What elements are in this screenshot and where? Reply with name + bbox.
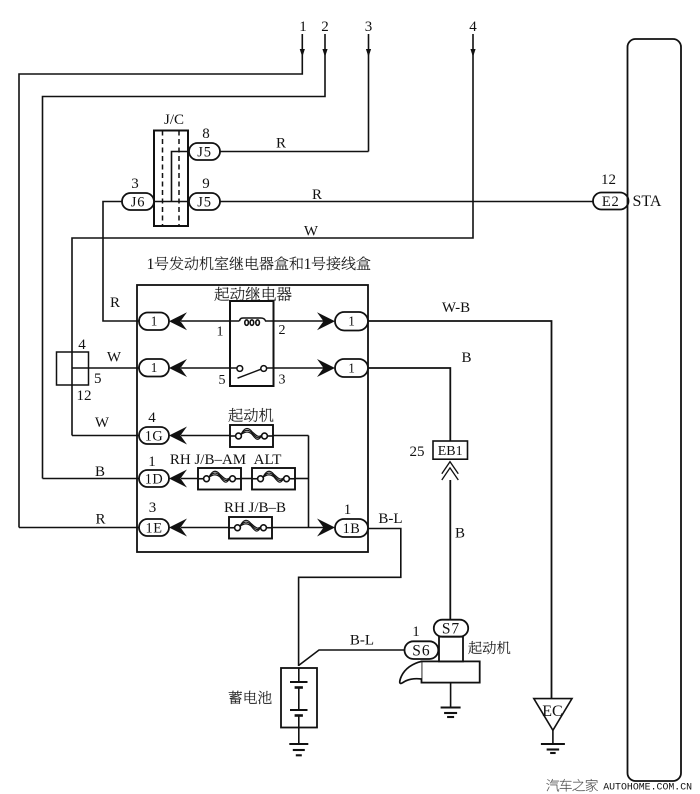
connector S7 (434, 620, 468, 638)
EC ground lead (552, 730, 554, 743)
pin 8 label (202, 126, 210, 142)
svg-text:J/C: J/C (164, 112, 184, 128)
relay pin 1 label (217, 325, 224, 340)
svg-text:R: R (95, 512, 105, 528)
wire 1 with down arrow (19, 34, 305, 528)
connector 1B (335, 519, 368, 537)
wire 3 with down arrow (366, 34, 371, 152)
wire W-B to EC (368, 321, 552, 699)
svg-text:B-L: B-L (350, 633, 374, 649)
svg-text:3: 3 (149, 500, 157, 516)
wire J6 left lead (103, 202, 139, 322)
trunk wire right of breakers (308, 436, 310, 528)
arrow into row2 left (169, 359, 187, 377)
pin 9 label (202, 176, 210, 192)
svg-text:2: 2 (321, 19, 329, 35)
svg-text:AUTOHOME.COM.CN: AUTOHOME.COM.CN (603, 782, 692, 793)
svg-text:12: 12 (601, 172, 616, 188)
starter solenoid (439, 637, 463, 662)
svg-text:3: 3 (365, 19, 373, 35)
arrow into row1 left (169, 312, 187, 330)
junction connector J/C box (154, 131, 188, 227)
wire 2 with down arrow (43, 34, 328, 479)
ground point EC triangle (534, 699, 572, 731)
wire B EB1 to starter (449, 480, 451, 620)
svg-text:1: 1 (412, 624, 420, 640)
svg-text:EC: EC (542, 703, 562, 720)
svg-text:1E: 1E (146, 520, 163, 536)
svg-text:RH J/B–AM: RH J/B–AM (170, 452, 246, 468)
svg-text:3: 3 (131, 176, 139, 192)
starter motor scroll (400, 661, 422, 683)
node 3 label (365, 19, 373, 35)
wire label B-L battery (350, 633, 374, 649)
starter relay label 起动继电器 (215, 287, 292, 301)
connector oval row2 left (139, 359, 169, 377)
svg-text:W: W (95, 415, 110, 431)
ground below starter (441, 708, 461, 718)
node 2 label (321, 19, 329, 35)
starter motor body (422, 661, 480, 682)
arrow into 1E (169, 519, 187, 537)
svg-text:1: 1 (217, 325, 224, 340)
relay box title 1号发动机室继电器盒和1号接线盒 (147, 256, 371, 273)
label RH J/B-B (224, 500, 286, 516)
arrow into row1 right (317, 312, 335, 330)
J/C internal wire (172, 152, 190, 202)
connector oval row2 right (335, 359, 368, 377)
connector 1E (139, 519, 169, 536)
ground below battery (289, 744, 308, 755)
svg-text:12: 12 (77, 388, 92, 404)
svg-text:R: R (110, 295, 120, 311)
svg-text:J6: J6 (131, 194, 146, 210)
svg-text:ALT: ALT (254, 452, 282, 468)
pin 3 label above 1E (149, 500, 157, 516)
watermark 汽车之家 (546, 779, 597, 791)
pin 1 label above S6 (412, 624, 420, 640)
ground below EC (541, 744, 565, 753)
wire J/B-B to 1B (272, 527, 324, 529)
J/C dashed line left (162, 131, 164, 227)
svg-text:1: 1 (151, 360, 158, 375)
pin 12 label small box (77, 388, 92, 404)
pin 25 label (410, 444, 425, 460)
svg-text:9: 9 (202, 176, 210, 192)
pin 5 label (94, 371, 102, 387)
svg-text:1G: 1G (145, 428, 163, 444)
wire B-L to starter S6 (299, 650, 405, 666)
svg-text:1: 1 (344, 502, 352, 518)
wire label R into relay (110, 295, 120, 311)
wire label R (276, 136, 286, 152)
relay pin 2 label (279, 323, 286, 338)
wire B to EB1 (368, 368, 450, 441)
circuit breaker RH J/B-AM (198, 468, 241, 490)
svg-text:1: 1 (148, 454, 156, 470)
wire R from J5 pin 9 to E2 (220, 201, 593, 203)
pin 4 label above 1G (148, 410, 156, 426)
svg-text:EB1: EB1 (438, 444, 463, 459)
svg-text:1: 1 (348, 360, 355, 375)
label RH J/B-AM (170, 452, 246, 468)
svg-text:1D: 1D (145, 471, 163, 487)
J/C dashed line right (178, 131, 180, 227)
wire R into 1E (19, 527, 139, 529)
connector 1G (139, 427, 169, 444)
wire 1D to AM box (181, 478, 198, 480)
svg-text:RH J/B–B: RH J/B–B (224, 500, 286, 516)
arrow into 1G (169, 427, 187, 445)
wire R from J5 pin 8 to node 3 (220, 151, 369, 153)
node 4 label (469, 19, 477, 35)
wire ALT to trunk (295, 478, 309, 480)
wire 4 with down arrow (72, 34, 476, 436)
relay pin 5 label (219, 373, 226, 388)
battery label 蓄电池 (229, 691, 272, 704)
ground point EB1 box (433, 441, 468, 459)
wire label B-L right (378, 511, 402, 527)
wire label B bottom (455, 526, 465, 542)
svg-text:R: R (276, 136, 286, 152)
svg-text:B: B (95, 464, 105, 480)
svg-text:STA: STA (633, 193, 662, 210)
svg-text:4: 4 (148, 410, 156, 426)
relay box outline (137, 285, 368, 552)
label ALT (254, 452, 282, 468)
connector 1D (139, 470, 169, 487)
ECU STA block (628, 39, 682, 781)
wire label W 1G (95, 415, 110, 431)
pin 4 label (78, 337, 86, 353)
svg-text:W: W (107, 350, 122, 366)
pin 3 label (131, 176, 139, 192)
junction connector J/C label (164, 112, 184, 128)
arrow into 1D (169, 470, 187, 488)
battery ground lead (298, 728, 300, 744)
connector J5 pin 8 (189, 143, 220, 160)
starter ground lead (450, 683, 452, 707)
svg-text:8: 8 (202, 126, 210, 142)
arrow into 1B (317, 519, 335, 537)
pin 12 label (601, 172, 616, 188)
battery outline (281, 668, 317, 728)
svg-text:B-L: B-L (378, 511, 402, 527)
connector J5 pin 9 (189, 193, 220, 210)
watermark AUTOHOME.COM.CN (603, 782, 692, 793)
svg-text:B: B (455, 526, 465, 542)
relay coil (181, 318, 324, 325)
relay pin 3 label (279, 373, 286, 388)
starter label 起动机 in box (229, 408, 274, 422)
wire AM to ALT (241, 478, 252, 480)
svg-text:1: 1 (304, 256, 312, 273)
wire J6 to J5 through J/C (154, 201, 189, 203)
wire W into 1G (72, 435, 139, 437)
wire label R long (312, 187, 322, 203)
svg-text:1: 1 (147, 256, 155, 273)
starter relay outline (230, 301, 274, 386)
wire B into 1D (43, 478, 140, 480)
connector S6 (405, 641, 439, 659)
svg-text:S6: S6 (412, 642, 430, 659)
svg-text:R: R (312, 187, 322, 203)
circuit breaker RH J/B-B (229, 517, 272, 539)
connector oval row1 right (335, 312, 368, 331)
connector box pins 4-5-12 (57, 352, 89, 385)
circuit breaker ALT (252, 468, 295, 490)
wire label B left (95, 464, 105, 480)
node 1 label (299, 19, 307, 35)
svg-text:W: W (304, 224, 319, 240)
svg-text:1B: 1B (343, 521, 361, 537)
connector E2 (593, 193, 629, 210)
wire B-L from 1B (299, 529, 401, 667)
svg-text:2: 2 (279, 323, 286, 338)
svg-text:B: B (461, 350, 471, 366)
wire label W top (304, 224, 319, 240)
svg-text:W-B: W-B (442, 300, 470, 316)
starter label 起动机 (468, 641, 510, 654)
svg-text:1: 1 (151, 314, 158, 329)
battery cells (290, 668, 308, 728)
svg-text:4: 4 (78, 337, 86, 353)
relay switch (181, 366, 324, 379)
svg-text:5: 5 (94, 371, 102, 387)
svg-text:S7: S7 (442, 620, 460, 637)
arrow into row2 right (317, 359, 335, 377)
svg-text:25: 25 (410, 444, 425, 460)
svg-text:1: 1 (299, 19, 307, 35)
wire W branch to relay switch (72, 367, 139, 369)
svg-text:5: 5 (219, 373, 226, 388)
svg-text:4: 4 (469, 19, 477, 35)
pin 1 label above 1B (344, 502, 352, 518)
wire label R left (95, 512, 105, 528)
circuit breaker 起动机 (230, 425, 273, 447)
svg-text:J5: J5 (197, 194, 212, 210)
EB1 chevron arrows (442, 462, 459, 480)
connector J6 (122, 193, 154, 210)
wire label W-B (442, 300, 470, 316)
svg-text:J5: J5 (197, 144, 212, 160)
wire 1G to breaker (181, 435, 230, 437)
svg-text:E2: E2 (602, 194, 620, 210)
STA label (633, 193, 662, 210)
wire breaker to trunk (273, 435, 309, 437)
wire label W switch (107, 350, 122, 366)
wire label B right (461, 350, 471, 366)
svg-text:1: 1 (348, 314, 355, 329)
svg-text:3: 3 (279, 373, 286, 388)
wire 1E to J/B-B box (181, 527, 229, 529)
connector oval row1 left (139, 313, 169, 331)
pin 1 label above 1D (148, 454, 156, 470)
